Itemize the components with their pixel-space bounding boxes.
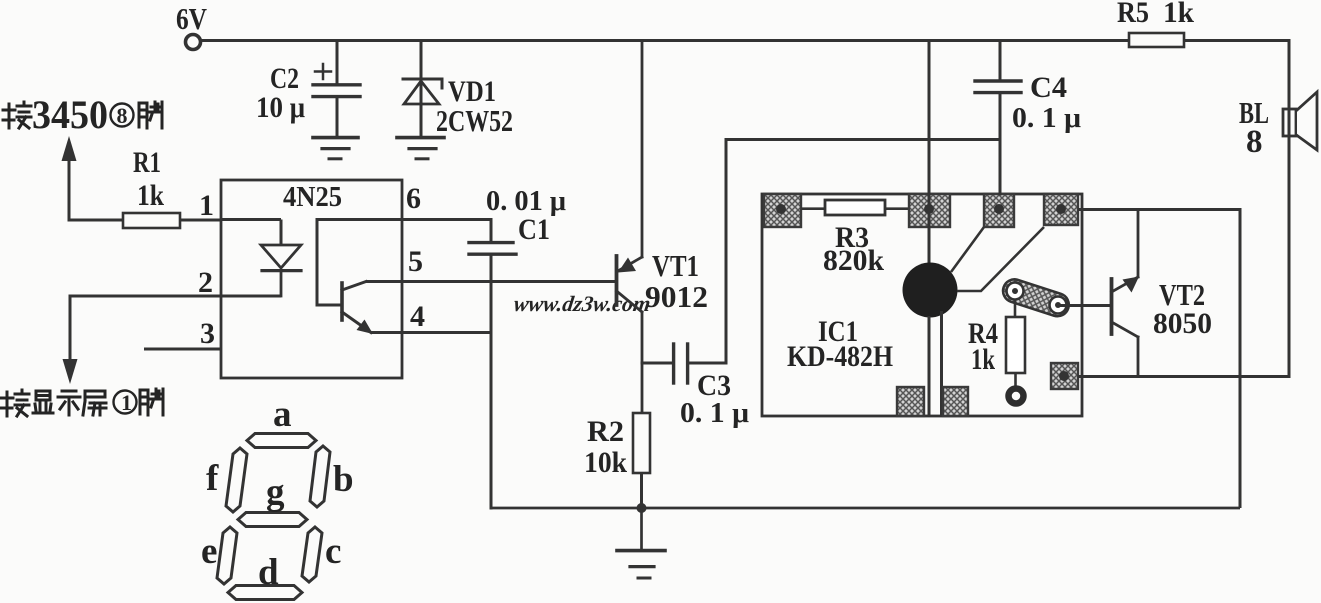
optocoupler U 4N25 box: [221, 180, 402, 378]
wire chip pill to VT2 base: [1058, 304, 1110, 307]
node: lead to 3450 pin 8 (arrow up): [69, 158, 123, 220]
svg-text:8: 8: [117, 103, 128, 128]
svg-text:0. 1 μ: 0. 1 μ: [1012, 103, 1081, 134]
svg-text:10k: 10k: [584, 446, 627, 479]
svg-text:4: 4: [410, 300, 425, 333]
IC1 KD-482H module box: [762, 194, 1082, 416]
zener diode VD1 2CW52: [403, 41, 442, 138]
IC1 die (black blob): [903, 263, 958, 318]
node 6V supply terminal: [186, 35, 201, 50]
wire pad4 to right corner, down to ground rail: [1078, 210, 1240, 509]
svg-text:2: 2: [198, 266, 213, 299]
svg-text:820k: 820k: [823, 244, 884, 277]
svg-text:KD-482H: KD-482H: [787, 340, 893, 373]
wire R1 to pin1: [180, 219, 221, 222]
svg-text:c: c: [325, 531, 341, 572]
node junction dot: [637, 503, 647, 513]
capacitor C4 0.1u: [975, 41, 1021, 195]
svg-text:R2: R2: [587, 415, 624, 448]
svg-text:4N25: 4N25: [283, 181, 342, 213]
capacitor C1 0.01u: [402, 220, 516, 509]
svg-text:0. 1 μ: 0. 1 μ: [680, 398, 749, 429]
wire rail drop to IC1 die: [928, 41, 931, 265]
pad (IC1 bottom 1): [897, 387, 924, 416]
pad (IC1 top 2nd): [909, 194, 950, 227]
svg-text:b: b: [333, 459, 354, 500]
node label: connect to 3450 pin 8 (Chinese): [3, 102, 31, 128]
transistor VT1 9012: [617, 41, 643, 414]
svg-text:1: 1: [121, 390, 132, 415]
wire top supply rail: [201, 39, 1289, 42]
svg-text:d: d: [258, 552, 279, 593]
svg-text:R5: R5: [1117, 0, 1149, 29]
svg-text:C1: C1: [518, 213, 550, 246]
LED inside 4N25: [261, 245, 301, 296]
die leads down: [929, 311, 942, 416]
ground (main): [617, 508, 665, 578]
wire IC1 output pad to speaker branch: [1078, 375, 1289, 378]
pad (IC1 top 3rd): [984, 194, 1014, 227]
capacitor C3 0.1u: [642, 140, 999, 384]
svg-text:C4: C4: [1030, 71, 1067, 104]
pad (IC1 right-bottom): [1051, 363, 1078, 389]
segment a: [247, 434, 316, 448]
svg-text:6V: 6V: [176, 1, 207, 36]
wire pin 4 out: [371, 331, 491, 334]
node label: connect to display pin 1 (Chinese): [1, 390, 106, 416]
wire pin 5 to VT1 base: [366, 280, 615, 283]
pad (IC1 top-right): [1044, 194, 1078, 225]
svg-text:R1: R1: [133, 146, 161, 179]
wire pin 3 stub: [144, 348, 221, 351]
segment d: [228, 586, 302, 600]
svg-text:g: g: [266, 472, 285, 513]
svg-text:f: f: [206, 458, 219, 499]
svg-text:e: e: [201, 531, 217, 572]
pad (IC1 bottom 2): [943, 387, 968, 416]
svg-text:8: 8: [1246, 124, 1263, 160]
svg-text:9012: 9012: [645, 279, 708, 314]
svg-text:1k: 1k: [971, 343, 995, 376]
segment e: [217, 527, 237, 584]
resistor R2 10k: [633, 413, 650, 473]
resistor R4 1k: [1014, 299, 1017, 317]
seven-segment display sketch: [217, 434, 330, 600]
ground (below C2): [313, 138, 358, 159]
wire ground rail: [490, 507, 1240, 510]
segment b: [310, 446, 330, 507]
bond wire from pad4 to die: [957, 227, 1044, 291]
svg-text:1k: 1k: [1163, 0, 1194, 29]
node: lead to display pin 1 (arrow down): [63, 359, 78, 384]
pad (IC1 top-left): [764, 194, 801, 227]
svg-text:1k: 1k: [137, 179, 164, 212]
speaker BL: [1283, 41, 1317, 377]
segment c: [302, 527, 322, 582]
svg-text:3: 3: [200, 317, 215, 350]
capacitor C2: [313, 41, 360, 137]
phototransistor inside 4N25: [317, 220, 402, 333]
resistor R5 1k: [1129, 33, 1184, 47]
segment g: [238, 513, 307, 527]
segment f: [226, 448, 247, 512]
svg-text:10 μ: 10 μ: [256, 91, 305, 124]
wire pin 2 (to LED cathode, out to down-arrow): [70, 296, 281, 360]
chip resistor (slanted pill in IC1): [1000, 276, 1072, 319]
bond wire from pad3 to die: [951, 227, 984, 272]
svg-text:8050: 8050: [1153, 307, 1212, 340]
svg-text:a: a: [273, 394, 292, 435]
ground (below VD1): [397, 138, 444, 159]
svg-text:2CW52: 2CW52: [436, 103, 513, 138]
resistor R3 820k: [801, 207, 909, 210]
svg-text:VT1: VT1: [652, 248, 699, 283]
transistor VT2 8050: [1112, 210, 1139, 377]
wire pin1 inside + LED anode: [221, 220, 281, 246]
svg-text:5: 5: [408, 245, 423, 278]
svg-text:3450: 3450: [32, 92, 108, 137]
svg-text:1: 1: [199, 189, 214, 222]
svg-text:6: 6: [406, 182, 421, 215]
resistor R1: [123, 213, 180, 228]
